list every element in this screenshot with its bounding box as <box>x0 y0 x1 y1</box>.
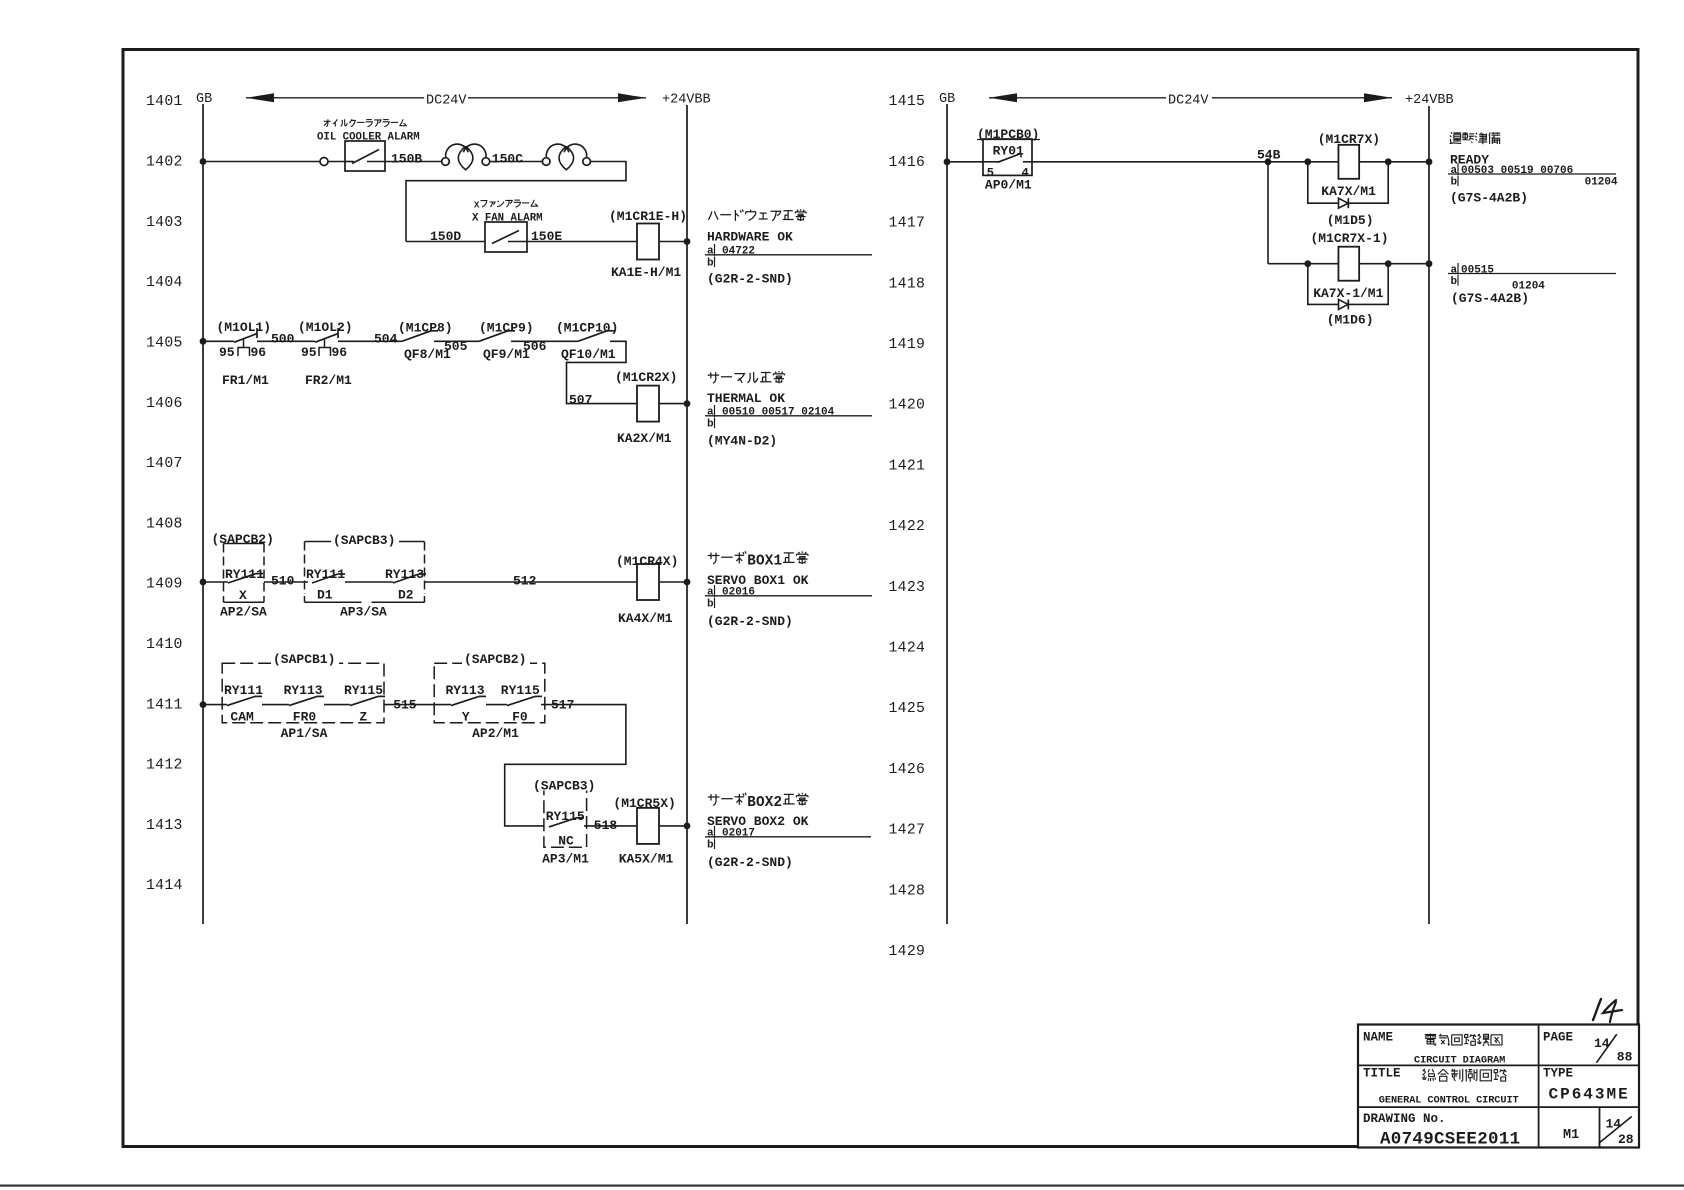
svg-text:AP2/SA: AP2/SA <box>220 605 267 620</box>
svg-text:THERMAL OK: THERMAL OK <box>707 391 785 406</box>
svg-text:505: 505 <box>444 339 468 354</box>
svg-text:1407: 1407 <box>146 456 183 472</box>
svg-text:O: O <box>756 795 765 811</box>
svg-text:RY113: RY113 <box>284 683 323 698</box>
svg-text:AP3/M1: AP3/M1 <box>542 852 589 867</box>
svg-text:DRAWING No.: DRAWING No. <box>1363 1112 1446 1126</box>
wire branch from 54B down to rung 1418 <box>1267 162 1269 264</box>
svg-text:FR0: FR0 <box>293 710 317 725</box>
connector coil symbol J1 (150B-150C) <box>442 158 450 166</box>
diode M1D5 symbol <box>1339 198 1349 208</box>
handwritten page number 14 <box>1593 999 1601 1020</box>
node junction on +24VBB rail line 1413 <box>684 823 691 830</box>
wire 150D <box>406 241 485 243</box>
svg-text:a: a <box>707 587 714 599</box>
svg-text:D2: D2 <box>398 588 414 603</box>
svg-text:KA1E-H/M1: KA1E-H/M1 <box>611 265 681 280</box>
svg-text:04722: 04722 <box>722 246 755 258</box>
svg-text:1: 1 <box>774 554 783 570</box>
svg-text:FR1/M1: FR1/M1 <box>222 373 269 388</box>
svg-text:CIRCUIT DIAGRAM: CIRCUIT DIAGRAM <box>1414 1055 1505 1067</box>
svg-text:KA5X/M1: KA5X/M1 <box>619 852 674 867</box>
svg-text:518: 518 <box>594 818 618 833</box>
wire rung 1405 <box>203 340 234 342</box>
svg-text:1420: 1420 <box>889 398 926 414</box>
svg-text:(M1CP9): (M1CP9) <box>479 321 534 336</box>
svg-text:RY113: RY113 <box>446 683 485 698</box>
svg-text:PAGE: PAGE <box>1543 1031 1573 1045</box>
wire 150B <box>385 161 442 163</box>
node junction on GB rail line 1402 <box>200 158 207 165</box>
svg-text:1411: 1411 <box>146 697 183 713</box>
svg-text:A0749CSEE2011: A0749CSEE2011 <box>1380 1130 1520 1150</box>
svg-text:a: a <box>707 828 714 840</box>
contact blade (X fan alarm) <box>492 231 519 244</box>
svg-text:KA7X-1/M1: KA7X-1/M1 <box>1313 286 1383 301</box>
svg-text:DC24V: DC24V <box>426 93 467 108</box>
svg-text:B: B <box>747 554 756 570</box>
svg-text:14: 14 <box>1594 1036 1610 1051</box>
svg-text:X: X <box>765 554 774 570</box>
svg-text:1408: 1408 <box>146 516 183 532</box>
wire node 506 <box>511 340 578 342</box>
svg-text:(G2R-2-SND): (G2R-2-SND) <box>707 614 793 629</box>
node junction on GB rail line 1405 <box>200 338 207 345</box>
svg-text:1409: 1409 <box>146 577 183 593</box>
svg-text:515: 515 <box>393 697 417 712</box>
svg-text:RY01: RY01 <box>993 144 1024 159</box>
svg-text:(SAPCB3): (SAPCB3) <box>533 779 595 794</box>
terminal circle (oil cooler alarm contact) <box>320 158 328 166</box>
svg-text:1415: 1415 <box>889 94 926 110</box>
svg-text:Y: Y <box>462 710 470 725</box>
svg-text:02017: 02017 <box>722 828 755 840</box>
wire 150E <box>527 241 637 243</box>
svg-text:1424: 1424 <box>889 641 926 657</box>
connector box SAPCB3 (AP3/M1) <box>544 787 587 848</box>
svg-text:504: 504 <box>374 332 398 347</box>
svg-text:500: 500 <box>271 332 295 347</box>
svg-text:512: 512 <box>513 574 537 589</box>
wire rung 1402 from GB rail to contact <box>203 161 320 163</box>
svg-text:QF10/M1: QF10/M1 <box>561 347 616 362</box>
svg-text:96: 96 <box>251 345 267 360</box>
svg-text:TYPE: TYPE <box>1543 1067 1573 1081</box>
svg-text:(M1D5): (M1D5) <box>1327 213 1374 228</box>
svg-text:1421: 1421 <box>889 458 926 474</box>
wire node 504 <box>338 340 402 342</box>
svg-text:(SAPCB2): (SAPCB2) <box>464 652 526 667</box>
svg-text:HARDWARE OK: HARDWARE OK <box>707 230 793 245</box>
node junction on +24VBB rail line 1409 <box>684 579 691 586</box>
svg-text:(M1CR1E-H): (M1CR1E-H) <box>609 209 687 224</box>
svg-text:a: a <box>707 246 714 258</box>
svg-text:b: b <box>1451 276 1458 288</box>
svg-text:FR2/M1: FR2/M1 <box>305 373 352 388</box>
svg-text:a: a <box>707 407 714 419</box>
svg-text:F0: F0 <box>512 710 528 725</box>
wire +24VBB rail (left ladder) <box>686 105 688 924</box>
wire GB rail (left ladder) <box>202 104 204 924</box>
svg-text:(G7S-4A2B): (G7S-4A2B) <box>1450 191 1528 206</box>
svg-text:DC24V: DC24V <box>1168 93 1209 108</box>
svg-text:1406: 1406 <box>146 396 183 412</box>
svg-text:2: 2 <box>774 795 783 811</box>
svg-text:(G7S-4A2B): (G7S-4A2B) <box>1451 291 1529 306</box>
svg-text:B: B <box>747 795 756 811</box>
svg-text:1427: 1427 <box>889 823 926 839</box>
svg-text:1412: 1412 <box>146 758 183 774</box>
svg-text:507: 507 <box>569 392 592 407</box>
wire 150C <box>490 161 543 163</box>
svg-text:(M1CR2X): (M1CR2X) <box>615 370 677 385</box>
svg-text:1402: 1402 <box>146 155 183 171</box>
connector box SAPCB3 (AP3/SA) <box>305 541 425 543</box>
wire from 150C to step-down corner <box>406 162 626 242</box>
svg-text:AP3/SA: AP3/SA <box>340 605 387 620</box>
svg-text:(SAPCB1): (SAPCB1) <box>273 652 335 667</box>
svg-text:1418: 1418 <box>889 276 926 292</box>
node annotation THERMAL OK <box>708 374 720 376</box>
svg-text:AP2/M1: AP2/M1 <box>472 726 519 741</box>
node annotation SERVO BOX1 OK <box>708 555 720 557</box>
svg-text:NAME: NAME <box>1363 1031 1393 1045</box>
svg-text:14: 14 <box>1606 1117 1622 1132</box>
svg-text:1405: 1405 <box>146 335 183 351</box>
relay coil KA4X/M1 (M1CR4X) <box>637 564 659 600</box>
svg-text:(M1D6): (M1D6) <box>1327 313 1374 328</box>
switch contact S-OIL (oil cooler alarm) box <box>345 141 385 171</box>
svg-text:b: b <box>707 599 714 611</box>
svg-text:(M1CR7X-1): (M1CR7X-1) <box>1311 231 1389 246</box>
svg-text:150E: 150E <box>531 229 562 244</box>
title block frame <box>1358 1025 1639 1148</box>
node junction on GB rail line 1416 (right) <box>944 158 951 165</box>
node annotation READY <box>1451 132 1453 133</box>
wire rung 1416 to node 54B <box>1032 161 1268 163</box>
wire +24VBB rail (right ladder) <box>1428 106 1430 924</box>
connector coil symbol J2 (150C) <box>542 158 550 166</box>
svg-text:(M1OL1): (M1OL1) <box>217 320 272 335</box>
svg-text:b: b <box>1451 177 1458 189</box>
wire node 505 <box>434 340 479 342</box>
wire node 512 <box>425 581 638 583</box>
connector box SAPCB1 (AP1/SA) <box>222 663 384 722</box>
svg-text:X: X <box>239 588 247 603</box>
connector box SAPCB2 (AP2/M1) <box>434 663 545 722</box>
svg-text:510: 510 <box>271 574 295 589</box>
svg-text:88: 88 <box>1617 1050 1633 1065</box>
svg-text:28: 28 <box>1618 1132 1634 1147</box>
svg-text:O: O <box>756 554 765 570</box>
wire step-down from 1405 to coil KA2X <box>567 341 638 403</box>
svg-text:X: X <box>474 200 480 211</box>
svg-text:1410: 1410 <box>146 637 183 653</box>
svg-text:CAM: CAM <box>230 710 254 725</box>
svg-text:96: 96 <box>332 345 348 360</box>
svg-text:1423: 1423 <box>889 580 926 596</box>
svg-text:1414: 1414 <box>146 878 183 894</box>
node junction on +24VBB rail line 1403 <box>684 238 691 245</box>
svg-text:1404: 1404 <box>146 275 183 291</box>
svg-text:1422: 1422 <box>889 519 926 535</box>
svg-text:506: 506 <box>523 339 547 354</box>
svg-text:02016: 02016 <box>722 587 755 599</box>
svg-text:00503 00519 00706: 00503 00519 00706 <box>1461 165 1573 177</box>
svg-text:GENERAL CONTROL CIRCUIT: GENERAL CONTROL CIRCUIT <box>1379 1095 1519 1107</box>
svg-text:150B: 150B <box>391 152 422 167</box>
switch contact S-XFAN (X fan alarm) box <box>485 222 527 252</box>
svg-text:00510 00517 02104: 00510 00517 02104 <box>722 407 835 419</box>
node junction on GB rail line 1409 <box>200 579 207 586</box>
svg-text:1413: 1413 <box>146 818 183 834</box>
svg-text:RY115: RY115 <box>501 683 540 698</box>
svg-text:1425: 1425 <box>889 701 926 717</box>
wire coil KA2X to +24VBB rail <box>659 403 687 405</box>
svg-text:1401: 1401 <box>146 94 183 110</box>
wire node 515 <box>384 704 451 706</box>
svg-text:95: 95 <box>219 345 235 360</box>
flyback diode M1D5 bypass wire <box>1308 162 1339 203</box>
wire node 500 <box>257 340 315 342</box>
svg-text:TITLE: TITLE <box>1363 1067 1401 1081</box>
svg-text:150D: 150D <box>430 229 461 244</box>
bus voltage arrow DC24V (left ladder) <box>246 97 424 99</box>
svg-text:1419: 1419 <box>889 337 926 353</box>
svg-text:(G2R-2-SND): (G2R-2-SND) <box>707 272 793 287</box>
wire GB rail (right ladder) <box>946 104 948 924</box>
svg-text:RY111: RY111 <box>225 567 264 582</box>
svg-text:1428: 1428 <box>889 883 926 899</box>
wire coil KA1E-H to +24VBB rail <box>659 241 687 243</box>
svg-text:b: b <box>707 258 714 270</box>
svg-text:1416: 1416 <box>889 155 926 171</box>
svg-text:(G2R-2-SND): (G2R-2-SND) <box>707 855 793 870</box>
svg-text:AP1/SA: AP1/SA <box>281 726 328 741</box>
svg-text:(M1CP10): (M1CP10) <box>556 321 618 336</box>
svg-text:GB: GB <box>196 92 212 107</box>
flyback diode M1D6 bypass wire <box>1308 264 1339 305</box>
node junction on +24VBB rail line 1406 <box>684 400 691 407</box>
contact blade RY01 <box>998 154 1021 163</box>
svg-text:(M1OL2): (M1OL2) <box>298 320 353 335</box>
svg-text:a: a <box>1451 165 1458 177</box>
contact blade (oil cooler alarm) <box>352 150 379 164</box>
svg-text:Z: Z <box>359 710 367 725</box>
svg-text:+24VBB: +24VBB <box>1405 93 1454 108</box>
svg-text:(M1CR4X): (M1CR4X) <box>616 554 678 569</box>
svg-text:D1: D1 <box>317 588 333 603</box>
svg-text:X: X <box>765 795 774 811</box>
svg-text:AP0/M1: AP0/M1 <box>985 178 1032 193</box>
svg-text:b: b <box>707 840 714 852</box>
svg-text:95: 95 <box>301 345 317 360</box>
svg-text:(MY4N-D2): (MY4N-D2) <box>707 434 777 449</box>
node junction on +24VBB rail line 1416 (right) <box>1426 158 1433 165</box>
node junction on GB rail line 1411 <box>200 701 207 708</box>
svg-text:150C: 150C <box>492 152 523 167</box>
svg-text:1426: 1426 <box>889 762 926 778</box>
bus voltage arrow DC24V (right ladder) <box>989 97 1166 99</box>
svg-text:KA7X/M1: KA7X/M1 <box>1321 184 1376 199</box>
svg-text:b: b <box>707 419 714 431</box>
svg-text:1403: 1403 <box>146 215 183 231</box>
svg-text:01204: 01204 <box>1585 176 1618 188</box>
node annotation SERVO BOX2 OK <box>708 796 720 798</box>
svg-text:M1: M1 <box>1563 1128 1579 1143</box>
svg-text:1417: 1417 <box>889 216 926 232</box>
svg-text:(SAPCB3): (SAPCB3) <box>333 533 395 548</box>
svg-text:CP643ME: CP643ME <box>1549 1086 1630 1104</box>
svg-text:KA4X/M1: KA4X/M1 <box>618 611 673 626</box>
diode M1D6 symbol <box>1339 299 1349 309</box>
svg-text:1429: 1429 <box>889 944 926 960</box>
svg-text:KA2X/M1: KA2X/M1 <box>617 431 672 446</box>
svg-text:00515: 00515 <box>1461 264 1494 276</box>
node junction on +24VBB rail line 1418 (right) <box>1426 260 1433 267</box>
svg-text:NC: NC <box>558 834 574 849</box>
wire node 518 <box>584 825 637 827</box>
wire step-down from 1411 to 1413 <box>505 705 626 826</box>
wire node 54B to coil branch <box>1268 161 1338 163</box>
svg-text:a: a <box>1451 264 1458 276</box>
node annotation HARDWARE OK <box>709 211 712 219</box>
label oil cooler alarm (Japanese) <box>324 120 331 122</box>
